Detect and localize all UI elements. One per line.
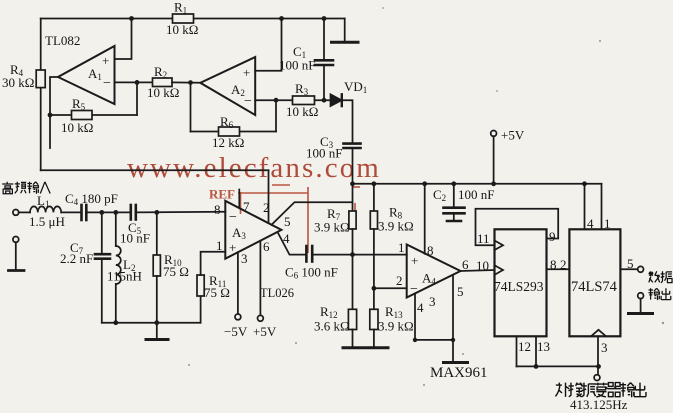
wire: C7 top lead <box>101 212 103 253</box>
svg-text:75 Ω: 75 Ω <box>204 285 230 300</box>
svg-text:−: − <box>103 76 111 91</box>
svg-text:5: 5 <box>284 214 291 229</box>
svg-text:30 kΩ: 30 kΩ <box>2 75 34 90</box>
wire: A1 output from apex down <box>50 77 58 148</box>
wire: 74LS293 pin8 to 74LS74 pin2 <box>547 268 570 270</box>
resistor R1 <box>173 14 194 23</box>
op-amp A1 <box>58 46 115 104</box>
diode VD1 <box>331 94 342 106</box>
svg-text:1: 1 <box>216 238 223 253</box>
IC 74LS74 box <box>569 229 620 336</box>
char shu vehicle <box>27 182 38 194</box>
wire: A3 output pin5 to REF column <box>272 202 353 225</box>
svg-text:3.9 kΩ: 3.9 kΩ <box>378 219 414 234</box>
wire: A3 pin4 diagonal to C6 <box>278 232 307 255</box>
clock wedge pin10 <box>495 265 504 275</box>
svg-text:75 Ω: 75 Ω <box>163 264 189 279</box>
char ru <box>40 182 50 194</box>
svg-text:1: 1 <box>398 240 405 255</box>
svg-text:−: − <box>229 210 237 225</box>
labels right section <box>314 205 634 413</box>
svg-text:8: 8 <box>214 202 221 217</box>
wire: R5 right riser to minus node <box>136 82 138 115</box>
svg-text:4: 4 <box>587 216 594 231</box>
wire: input to L1 <box>19 211 30 213</box>
char dang <box>595 383 608 397</box>
capacitor C6 <box>306 246 312 262</box>
svg-text:3.6 kΩ: 3.6 kΩ <box>314 319 350 334</box>
wire: R7 bottom to pin1 node <box>352 229 354 255</box>
capacitor C7 <box>95 254 110 259</box>
input network ink <box>9 190 353 340</box>
wire: R6 left riser from apex node <box>190 83 192 132</box>
capacitor C5 <box>131 205 136 220</box>
junction rail A1 plus <box>129 16 134 21</box>
junction C4 C7 <box>99 210 104 215</box>
resistor R3 <box>293 96 315 105</box>
wire: 74LS293 pin13 lead <box>535 336 537 366</box>
svg-text:3: 3 <box>429 294 436 309</box>
IC 74LS293 box <box>495 229 547 336</box>
wire: R4 bottom down left column <box>40 88 42 171</box>
wire: rail drop to 74LS74 pin4 <box>584 184 586 230</box>
wire: feedback loop pin9 to pin11 <box>476 209 559 246</box>
terminal +5V supply <box>491 131 497 137</box>
chinese label RF input <box>2 182 50 194</box>
junction R10 top <box>154 210 159 215</box>
wire: A4 output to 74LS293 pin10 <box>461 270 495 271</box>
ground below data terminal <box>629 299 653 314</box>
svg-text:100 nF: 100 nF <box>306 146 342 161</box>
char zhen <box>582 383 596 397</box>
wire: C1 top lead <box>323 19 325 61</box>
text labels top-left <box>2 0 525 203</box>
watermark www.elecfans.com <box>127 152 381 184</box>
op-amp A4 <box>407 245 461 298</box>
junction R8 R13 pin2 node <box>372 286 377 291</box>
terminal data output <box>638 266 644 272</box>
svg-text:−5V: −5V <box>224 324 248 339</box>
junction R2 A2 apex node <box>188 80 193 85</box>
svg-text:12 kΩ: 12 kΩ <box>212 135 244 150</box>
capacitor C3 <box>344 144 361 148</box>
junction C1 bottom <box>322 98 327 103</box>
svg-text:−: − <box>244 94 252 109</box>
ground below input terminal <box>9 242 25 270</box>
junction R5 left <box>48 113 53 118</box>
char shu vehicle 3 <box>621 383 635 398</box>
wire: L1 to C4 <box>61 211 81 213</box>
svg-text:1: 1 <box>604 216 611 231</box>
op-amp A3 <box>225 201 281 259</box>
resistor R5 <box>72 111 93 120</box>
main ink <box>36 14 601 229</box>
svg-text:11: 11 <box>477 231 490 246</box>
ground on bottom rail <box>146 323 168 340</box>
op-amp A2 <box>200 57 255 115</box>
junction rail A2 plus <box>279 16 284 21</box>
svg-text:12: 12 <box>518 339 531 354</box>
wire: R10 top lead <box>156 212 158 255</box>
wire: bottom rail <box>102 322 201 324</box>
terminal input ground side <box>13 237 19 243</box>
svg-text:8: 8 <box>550 257 557 272</box>
wire: R12 top lead <box>352 255 354 310</box>
svg-text:10 kΩ: 10 kΩ <box>147 85 179 100</box>
svg-text:2: 2 <box>396 273 403 288</box>
wire: 74LS293 pin12 lead <box>516 336 518 366</box>
wire: R11 top lead and A3 pin1 link <box>201 252 226 275</box>
wire: A2 - output wire to R3 <box>255 99 292 101</box>
char pin <box>15 182 26 194</box>
svg-text:2: 2 <box>263 200 270 215</box>
wire: A1 - input to R2 <box>115 81 153 83</box>
junction C6 R7 R12 pin1 node <box>350 252 355 257</box>
svg-text:REF: REF <box>209 187 235 202</box>
junction R10 bottom <box>154 320 159 325</box>
svg-text:115nH: 115nH <box>107 269 142 284</box>
svg-text:2.2 nF: 2.2 nF <box>60 251 93 266</box>
svg-text:2: 2 <box>560 257 567 272</box>
junction A4 pin4 bar <box>413 338 417 342</box>
svg-text:5: 5 <box>457 284 464 299</box>
char jie <box>569 383 583 397</box>
wire: A3 pin7 stub <box>238 190 240 209</box>
wire: R8 top segment <box>373 184 375 211</box>
wire: 74LS74 pin5 to output terminal <box>620 268 637 270</box>
svg-text:TL082: TL082 <box>45 33 80 48</box>
wire: horizontal line R4 node to A3 pin7 column <box>41 169 269 171</box>
svg-text:6: 6 <box>462 257 469 272</box>
wire: A4 pin8 drop from rail <box>424 184 426 254</box>
resistor R11 <box>197 275 204 296</box>
junction 74LS74 pin4 on rail <box>582 181 587 186</box>
junction MAX ground bar <box>451 338 455 342</box>
inductor L2 <box>116 246 121 284</box>
wire: C5 to A3 pin8 <box>136 211 226 214</box>
wire: C3 bottom lead to +5V rail <box>352 148 354 184</box>
junction pin13 bottom <box>534 364 539 369</box>
svg-text:10 kΩ: 10 kΩ <box>61 120 93 135</box>
wire: R3 to diode anode <box>315 99 331 101</box>
junction +5V on rail <box>491 181 496 186</box>
svg-text:+: + <box>229 240 236 255</box>
wire: rail drop to 74LS74 pin1 <box>601 184 603 230</box>
wire: A3 pin6 to +5V terminal <box>259 241 261 316</box>
svg-text:413.125Hz: 413.125Hz <box>570 397 628 412</box>
resistor R6 <box>219 127 240 136</box>
junction pin3 bottom <box>596 364 601 369</box>
svg-text:8: 8 <box>427 243 434 258</box>
junction rail C1 <box>322 16 327 21</box>
wire: C7 bottom lead to bottom rail <box>101 259 103 323</box>
svg-text:3: 3 <box>241 251 248 266</box>
svg-text:MAX961: MAX961 <box>430 365 488 381</box>
resistor R4 <box>36 70 45 88</box>
wire: drop into A3 top slope <box>268 170 270 223</box>
wire: A2 + input to rail <box>255 19 281 71</box>
wire: R8 bottom to pin2 node <box>373 229 375 309</box>
wire: C4 to C5 <box>86 211 130 213</box>
capacitor C2 <box>444 184 465 221</box>
wire: C1 bottom lead <box>323 65 325 100</box>
char chu <box>661 288 671 299</box>
junction A2 minus node <box>274 98 279 103</box>
resistor R13 <box>370 309 378 329</box>
svg-text:5: 5 <box>627 256 634 271</box>
wire: +5V drop to rail <box>493 136 495 184</box>
wire: A4 pin4 lead <box>414 294 416 340</box>
wire: A1 + input to rail <box>115 19 132 60</box>
svg-text:4: 4 <box>283 231 290 246</box>
wire: R2 to A2 apex <box>172 81 200 83</box>
wire: R6 bottom left link <box>191 131 219 133</box>
terminal +5V below A3 <box>258 315 264 321</box>
wire: diode cathode to C3 column <box>342 100 353 142</box>
char shu vehicle 2 <box>649 288 660 300</box>
svg-text:+5V: +5V <box>501 128 525 143</box>
ground at rail right end <box>332 19 359 43</box>
capacitor C4 <box>82 205 87 220</box>
char ju <box>661 271 672 283</box>
watermark REF red mark <box>209 185 360 253</box>
svg-text:3.9 kΩ: 3.9 kΩ <box>314 220 350 235</box>
wire: R6 bottom right link <box>240 131 277 133</box>
svg-text:10 kΩ: 10 kΩ <box>286 104 318 119</box>
resistor R7 <box>349 211 356 229</box>
junction REF node on rail <box>350 181 355 186</box>
svg-text:+: + <box>102 53 109 68</box>
wire: L2 bottom lead <box>115 284 117 323</box>
junction C2 on rail <box>451 181 456 186</box>
junction L2 top <box>113 210 118 215</box>
svg-text:10: 10 <box>476 258 489 273</box>
svg-text:10 nF: 10 nF <box>120 231 150 246</box>
svg-text:74LS74: 74LS74 <box>571 279 618 295</box>
resistor R12 <box>348 309 356 329</box>
svg-text:7: 7 <box>243 199 250 214</box>
right section ink <box>312 184 652 381</box>
svg-text:C4 180 pF: C4 180 pF <box>65 191 118 207</box>
wire: R13 bottom lead <box>373 330 375 348</box>
svg-text:100 nF: 100 nF <box>279 58 315 73</box>
capacitor C1 <box>315 60 333 65</box>
svg-text:1.5 μH: 1.5 μH <box>29 214 65 229</box>
wire: bottom link to 74LS74 pin3 <box>517 365 599 367</box>
junction L2 bottom <box>113 320 118 325</box>
chinese label data output <box>649 271 673 300</box>
svg-text:C6 100 nF: C6 100 nF <box>285 265 338 281</box>
wire: R12 bottom lead <box>352 330 354 348</box>
svg-text:−: − <box>410 282 418 297</box>
svg-text:9: 9 <box>549 229 556 244</box>
wire: MAX961 bottom bar <box>415 339 453 341</box>
wire: top rail <box>41 18 345 20</box>
junction A1 minus node <box>135 80 140 85</box>
svg-text:3: 3 <box>601 340 608 355</box>
wire: pin2 link to A4 <box>374 287 407 289</box>
svg-text:3.9 kΩ: 3.9 kΩ <box>378 319 414 334</box>
char qi <box>608 383 621 397</box>
ground below MAX961 <box>444 340 468 363</box>
svg-text:+: + <box>411 253 418 268</box>
clock wedge 74LS74 pin3 <box>591 330 606 337</box>
wire: R10 bottom lead <box>156 276 158 323</box>
wire: R5 bottom link <box>50 114 137 116</box>
junction A4 pin8 on rail <box>422 181 427 186</box>
terminal RF input <box>13 210 19 216</box>
resistor R8 <box>370 211 377 229</box>
wire: 74LS74 pin3 lead <box>597 336 599 374</box>
wire: R11 bottom lead from rail end <box>200 296 202 323</box>
inductor L1 <box>30 206 61 212</box>
svg-text:+5V: +5V <box>253 324 277 339</box>
resistor R10 <box>153 255 160 276</box>
terminal external oscillator output <box>594 375 600 381</box>
svg-text:13: 13 <box>537 339 550 354</box>
wire: C6 to A4 pin1 <box>312 254 407 256</box>
char shu number <box>649 271 660 282</box>
paper speckles <box>188 7 664 386</box>
char chu 2 <box>634 383 646 397</box>
wire: L2 top lead <box>115 212 117 246</box>
wire: REF column R7 top segment <box>352 184 354 211</box>
clock wedge pin11 <box>495 241 504 251</box>
junction R8 on rail <box>372 181 377 186</box>
char gao <box>2 182 13 194</box>
wire: A4 pin5 lead <box>452 275 454 340</box>
svg-text:www.elecfans.com: www.elecfans.com <box>127 152 381 184</box>
svg-text:6: 6 <box>263 239 270 254</box>
svg-text:+: + <box>243 65 250 80</box>
char wai <box>556 383 570 397</box>
svg-text:4: 4 <box>417 300 424 315</box>
chinese label external oscillator output <box>556 383 646 398</box>
svg-text:100 nF: 100 nF <box>458 187 494 202</box>
labels input network and A3 <box>29 191 338 339</box>
svg-text:TL026: TL026 <box>260 286 294 300</box>
terminal -5V <box>235 314 241 320</box>
ground bar under R12 R13 <box>343 346 388 349</box>
svg-text:10 kΩ: 10 kΩ <box>166 22 198 37</box>
resistor R2 <box>153 78 173 87</box>
wire: +5V mid rail <box>353 183 602 185</box>
terminal data output ground side <box>638 293 644 299</box>
svg-text:74LS293: 74LS293 <box>494 279 544 294</box>
wire: R6 right riser to minus node <box>275 100 277 131</box>
wire: rail down to R4 <box>40 19 42 71</box>
wire: A3 pin3 to -5V terminal <box>237 252 239 314</box>
